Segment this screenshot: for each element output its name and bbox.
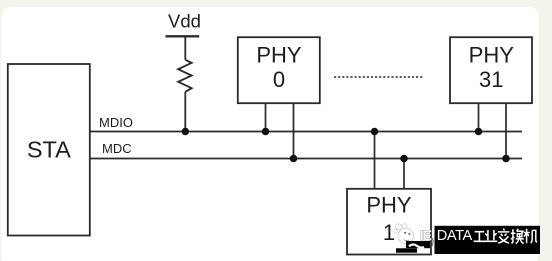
svg-text:MDIO: MDIO xyxy=(99,115,133,130)
wire PHY1 pin to MDC xyxy=(403,159,405,189)
wire PHY31 pin to MDIO xyxy=(478,103,480,131)
junction dot PHY1/MDIO xyxy=(371,128,379,136)
PHY 31 box xyxy=(450,37,532,103)
watermark bar CJK glyph 业 xyxy=(484,230,497,241)
PHY 0 box xyxy=(238,37,320,103)
power rail bar xyxy=(166,35,200,37)
junction dot PHY0/MDIO xyxy=(262,128,270,136)
watermark mascot body block xyxy=(396,241,430,253)
wire PHY31 pin to MDC xyxy=(505,103,507,158)
watermark bar text DATA xyxy=(437,228,473,244)
svg-text:PHY: PHY xyxy=(366,193,412,218)
watermark bar CJK glyph 工 xyxy=(474,232,486,242)
net label MDIO xyxy=(99,115,133,130)
svg-text:STA: STA xyxy=(27,137,71,163)
net label MDC xyxy=(102,141,132,156)
junction dot PHY31/MDIO xyxy=(475,128,483,136)
wire PHY0 pin to MDIO xyxy=(265,103,267,131)
watermark bar CJK glyph 换 xyxy=(511,229,524,244)
power net Vdd label xyxy=(168,11,201,32)
resistor pull-up xyxy=(178,60,191,92)
wire resistor to MDIO xyxy=(184,92,186,132)
svg-text:Vdd: Vdd xyxy=(168,11,201,32)
wire MDIO bus xyxy=(90,131,522,133)
wire MDC bus xyxy=(90,158,522,160)
watermark bar CJK glyph 交 xyxy=(498,229,510,243)
watermark bar CJK glyph 机 xyxy=(524,229,538,243)
junction dot PHY1/MDC xyxy=(400,155,408,163)
junction dot resistor/MDIO xyxy=(182,128,190,136)
wire Vdd bar to resistor xyxy=(184,36,186,60)
svg-text:0: 0 xyxy=(273,67,285,92)
svg-text:31: 31 xyxy=(479,67,503,92)
wire PHY1 pin to MDIO xyxy=(374,132,376,189)
watermark black bar xyxy=(435,226,541,254)
svg-text:MDC: MDC xyxy=(102,141,132,156)
ellipsis dotted line between PHY0 and PHY31 xyxy=(334,76,423,78)
watermark mascot logo xyxy=(394,224,414,244)
wire PHY0 pin to MDC xyxy=(293,103,295,158)
STA box xyxy=(8,64,90,236)
svg-text:IE: IE xyxy=(420,228,432,243)
svg-text:PHY: PHY xyxy=(469,43,515,68)
svg-text:1: 1 xyxy=(383,220,395,245)
svg-text:PHY: PHY xyxy=(256,43,302,68)
junction dot PHY0/MDC xyxy=(290,155,298,163)
watermark text IE xyxy=(420,228,433,247)
svg-text:DATA: DATA xyxy=(437,228,473,244)
junction dot PHY31/MDC xyxy=(502,155,510,163)
PHY 1 box xyxy=(347,189,431,255)
